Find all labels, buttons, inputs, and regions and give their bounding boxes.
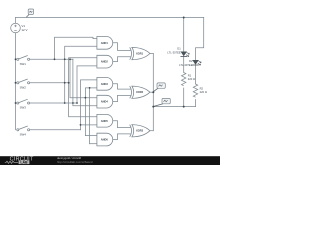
resistor R2: [193, 84, 197, 97]
junction output rail / LED return wire: [152, 106, 154, 108]
junction SW3 wire / trunk T5: [76, 102, 78, 104]
svg-text:LAB: LAB: [20, 161, 28, 165]
and-gate AND3: [97, 78, 113, 91]
svg-text:AND4: AND4: [101, 100, 109, 104]
wire SW2 output: [30, 82, 69, 84]
svg-text:AND2: AND2: [101, 60, 109, 64]
svg-text:AND1: AND1: [101, 41, 109, 45]
wire trunk T1 to AND1 top input: [55, 37, 97, 59]
wire XOR3 output: [150, 130, 153, 132]
svg-text:R1: R1: [188, 73, 192, 77]
wire SW3 output: [30, 102, 77, 104]
wire SW1 output: [30, 58, 73, 60]
wire AND3 output to XOR2 top input: [113, 84, 130, 89]
wire output rail vertical: [152, 54, 154, 131]
junction trunk T6 / AND5 feed: [80, 124, 82, 126]
svg-text:AND5: AND5: [101, 119, 109, 123]
wire D1 branch from top rail: [183, 18, 185, 52]
probe on rail junction 1: [154, 83, 166, 92]
and-gate AND5: [97, 114, 113, 127]
LED D1: [181, 52, 190, 57]
wire trunk T3 lower to AND5 top input: [69, 83, 97, 117]
junction bus / SW3: [15, 102, 17, 104]
svg-text:D2: D2: [189, 59, 193, 63]
svg-text:XOR1: XOR1: [136, 52, 144, 56]
wire D2 to R2: [195, 66, 197, 85]
svg-text:AND6: AND6: [101, 138, 109, 142]
and-gate AND1: [97, 37, 113, 50]
svg-text:220 Ω: 220 Ω: [188, 77, 195, 81]
svg-text:XOR2: XOR2: [136, 90, 144, 94]
wire XOR1 output to output rail: [150, 53, 153, 55]
wire trunk T2 to AND1 bottom input: [65, 46, 97, 103]
svg-text:SW1: SW1: [20, 62, 27, 66]
junction SW2 wire / trunk T2: [64, 82, 66, 84]
voltage source V1: [11, 23, 21, 33]
junction AND3 input feed / trunk T8: [89, 87, 91, 89]
wire trunk T7 to AND3 bottom input: [85, 88, 97, 136]
wire R2 to bottom horizontal: [195, 100, 197, 107]
wire trunk T5 to AND2 bottom input: [77, 66, 97, 103]
footer bar: [0, 156, 220, 165]
svg-text:AND3: AND3: [101, 82, 109, 86]
wire V1 top: [15, 18, 17, 24]
wire trunk T6 branch to AND5 bottom input: [81, 124, 97, 126]
junction trunk T7 / AND4 feed: [85, 97, 87, 99]
and-gate AND2: [97, 55, 113, 68]
wire AND2 output to XOR1 bottom input: [113, 57, 130, 62]
svg-text:R2: R2: [200, 86, 204, 90]
wire SW4 output: [30, 129, 81, 131]
svg-text:XOR3: XOR3: [136, 129, 144, 133]
junction SW1 wire / trunk T2: [64, 58, 66, 60]
svg-text:SW4: SW4: [20, 132, 27, 136]
svg-text:D1: D1: [177, 47, 181, 51]
wire rail to LED chains horizontal: [153, 106, 195, 108]
junction output rail / XOR2 output: [152, 91, 154, 93]
wire left bus: [15, 33, 17, 130]
junction SW1 wire / trunk T9: [69, 58, 71, 60]
junction SW3 wire / trunk T2: [64, 102, 66, 104]
svg-text:LTL-307EE: LTL-307EE: [179, 63, 193, 67]
switch SW2: [17, 79, 30, 84]
svg-text:LTL-307EE: LTL-307EE: [167, 51, 181, 55]
svg-text:http://circuitlab.com/c26awnz: http://circuitlab.com/c26awnz: [57, 160, 94, 164]
wire trunk T7 lower to AND6 top input: [85, 135, 97, 137]
wire trunk T8 upper span: [89, 88, 91, 144]
junction SW1 wire / trunk T1: [54, 58, 56, 60]
and-gate AND6: [97, 133, 113, 146]
junction bus / SW1: [15, 58, 17, 60]
xor-gate XOR3: [130, 125, 150, 137]
wire trunk T8 lower to AND6 bottom input: [90, 143, 97, 145]
wire top rail: [16, 17, 204, 19]
svg-text:12 V: 12 V: [21, 28, 27, 32]
resistor R1: [182, 73, 186, 86]
wire R1 to bottom horizontal: [183, 88, 185, 107]
wire trunk T6 to AND3 top input: [81, 80, 97, 130]
xor-gate XOR1: [130, 47, 150, 59]
xor-gate XOR2: [130, 86, 150, 98]
and-gate AND4: [97, 95, 113, 108]
wire trunk T4 to AND4 bottom input: [73, 59, 97, 106]
junction SW3 wire / trunk T4: [72, 102, 74, 104]
junction top rail / D1 branch: [183, 17, 185, 19]
wire AND6 output to XOR3 bottom input: [113, 134, 130, 140]
wire D1 to R1: [183, 57, 185, 73]
wire AND4 output to XOR2 bottom input: [113, 95, 130, 101]
switch SW4: [17, 126, 30, 131]
wire trunk T9 to AND4 top input: [70, 59, 97, 97]
junction LED return wire / R1: [183, 106, 185, 108]
wire AND1 output to XOR1 top input: [113, 43, 130, 51]
probe top-left: [26, 9, 33, 17]
svg-text:SW3: SW3: [20, 106, 27, 110]
switch SW3: [17, 99, 30, 104]
wire XOR2 output: [150, 91, 153, 93]
wire trunk T3 to AND2 top input: [69, 58, 97, 83]
svg-text:SW2: SW2: [20, 85, 27, 89]
wire AND5 output to XOR3 top input: [113, 121, 130, 128]
probe on rail junction 2: [154, 98, 171, 106]
wire D2 branch from top rail: [196, 18, 204, 61]
junction bus / SW2: [15, 82, 17, 84]
LED D2: [192, 60, 201, 65]
switch SW1: [17, 56, 30, 61]
footer logo CIRCUIT LAB: [5, 156, 34, 164]
junction SW2 wire / trunk T3: [68, 82, 70, 84]
svg-text:220 Ω: 220 Ω: [200, 90, 207, 94]
